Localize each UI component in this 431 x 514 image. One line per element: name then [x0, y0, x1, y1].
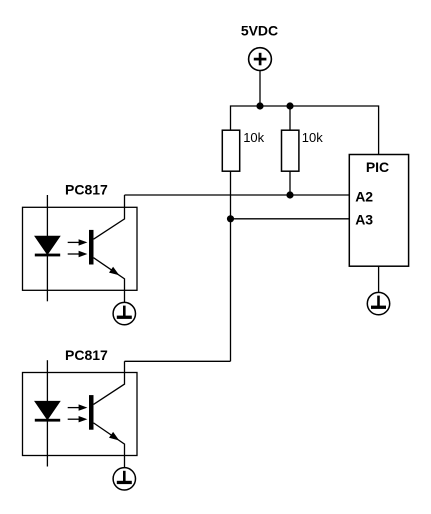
wire rail to R2 top: [289, 106, 291, 131]
wire A3 branch horizontal to opto U3 collector: [125, 360, 231, 362]
U2 light arrows: [68, 239, 88, 257]
resistor R2: [282, 130, 299, 171]
wire PIC bottom to ground: [378, 266, 380, 292]
svg-text:10k: 10k: [302, 130, 323, 145]
svg-text:PIC: PIC: [366, 159, 389, 175]
junction R1/A3: [227, 215, 234, 222]
U2 LED pin wire (anode/cathode): [46, 195, 48, 301]
wire node A2 (opto U2 collector to PIC pin A2): [125, 194, 350, 196]
U3 emitter arrowhead: [109, 432, 119, 441]
U2 emitter arrowhead: [109, 267, 119, 276]
ground symbol at U3 emitter: [113, 468, 135, 490]
U3 emitter wire down to ground: [94, 423, 125, 468]
IC U1 PIC body: [349, 155, 408, 267]
U3 LED pin wire (anode/cathode): [46, 360, 48, 466]
U2 collector wire up to node A2: [94, 195, 125, 239]
svg-text:A2: A2: [355, 189, 373, 205]
junction R2/A2: [286, 191, 293, 198]
U3 collector wire up to A3 branch: [94, 361, 125, 404]
U3 light arrows: [68, 404, 88, 422]
junction rail/R2: [286, 102, 293, 109]
ground symbol at U2 emitter: [113, 302, 135, 324]
ground symbol at PIC: [367, 292, 389, 314]
wire top rail with drops to R1 and PIC: [231, 106, 379, 155]
svg-text:5VDC: 5VDC: [241, 22, 278, 38]
svg-text:10k: 10k: [243, 130, 264, 145]
optocoupler U3 body: [23, 373, 138, 456]
U2 LED diode: [35, 236, 60, 256]
U2 phototransistor base bar: [89, 230, 94, 265]
wire R2 bottom to node A2: [289, 171, 291, 195]
optocoupler U2 body: [23, 207, 138, 290]
power supply V1: [249, 48, 272, 71]
wire supply to top rail: [259, 71, 261, 106]
U3 phototransistor base bar: [89, 395, 94, 430]
U3 LED diode: [35, 401, 60, 421]
svg-text:PC817: PC817: [65, 182, 108, 198]
junction supply/rail: [256, 102, 263, 109]
svg-text:A3: A3: [355, 211, 373, 227]
wire node A3 to PIC pin A3: [231, 218, 350, 220]
resistor R1: [222, 130, 239, 171]
wire R1 bottom down to opto U3 branch: [230, 171, 232, 361]
svg-text:PC817: PC817: [65, 347, 108, 363]
U2 emitter wire down to ground: [94, 258, 125, 303]
